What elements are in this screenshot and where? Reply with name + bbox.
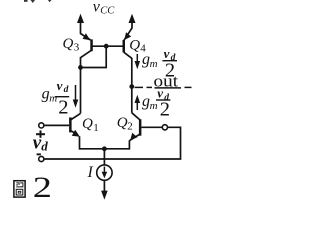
cropped text fragments top edge <box>24 0 52 3</box>
svg-text:CC: CC <box>100 6 115 17</box>
label Q2 <box>117 115 133 133</box>
svg-text:d: d <box>64 85 69 95</box>
svg-text:Q: Q <box>82 116 93 132</box>
current arrow gm vd/2 (upper right, down) <box>135 54 141 69</box>
wire: common emitters <box>80 148 130 150</box>
transistor Q4 body bar <box>123 40 126 52</box>
svg-text:m: m <box>49 92 57 104</box>
svg-text:2: 2 <box>127 121 133 133</box>
wire: Q4 collector down to Q2 collector <box>131 58 133 113</box>
svg-text:I: I <box>87 164 94 181</box>
svg-text:Q: Q <box>129 37 140 53</box>
junction dot output node <box>129 84 134 89</box>
PNP emitter arrowhead Q4 <box>124 32 131 40</box>
terminal circle right input <box>162 125 167 130</box>
transistor Q2 body bar <box>139 119 142 135</box>
transistor Q1 body bar <box>69 117 72 132</box>
wire: tail node to current source <box>103 149 105 165</box>
PNP emitter arrowhead Q3 <box>83 33 91 40</box>
label + <box>36 130 45 137</box>
wire: Q4 emitter to VCC <box>124 21 132 40</box>
svg-text:2: 2 <box>33 171 52 204</box>
transistor Q2 collector diagonal <box>132 113 140 120</box>
svg-text:2: 2 <box>58 96 68 118</box>
current arrow gm vd/2 (left, down) <box>73 85 79 108</box>
input terminal minus (open circle) <box>39 156 44 161</box>
label Q1 <box>82 116 99 134</box>
wire: Q2 emitter down <box>128 140 130 149</box>
label gm vd/2 (lower right) <box>142 86 170 121</box>
transistor Q4 collector diagonal <box>124 52 132 58</box>
current source I <box>97 165 112 180</box>
wire: current source to negative rail with arrow <box>101 180 108 199</box>
label Q4 <box>129 37 146 54</box>
transistor Q1 collector diagonal <box>70 113 80 120</box>
svg-text:2: 2 <box>160 98 170 120</box>
transistor Q2 emitter diagonal with NPN arrowhead <box>129 133 140 141</box>
wire: Q3 emitter to VCC <box>81 21 91 40</box>
junction dot base node <box>104 44 109 49</box>
svg-text:v: v <box>57 78 63 93</box>
svg-text:Q: Q <box>117 115 128 131</box>
label minus <box>37 153 41 155</box>
wire: Q3 collector down to Q1 collector <box>80 57 82 113</box>
source label vd <box>33 132 49 153</box>
svg-text:d: d <box>41 139 48 154</box>
transistor Q3 collector diagonal <box>81 50 92 58</box>
wire: diode connection loop <box>81 46 107 67</box>
caption glyph (figure CJK char) <box>14 181 25 197</box>
label gm vd/2 (upper right) <box>142 46 177 82</box>
wire: bottom rail from minus terminal to right side and up to Q2 base <box>44 127 181 159</box>
svg-text:2: 2 <box>165 59 175 81</box>
arrowhead VCC right <box>129 14 136 23</box>
svg-text:m: m <box>150 58 158 70</box>
junction dot tail node <box>102 146 107 151</box>
junction dot Q3 collector node <box>78 65 83 70</box>
label Q3 <box>63 36 80 54</box>
wire: base Q3-Q4 <box>92 45 123 47</box>
dashed lead to out <box>135 86 192 89</box>
wire: Q2 base to right terminal <box>141 126 162 128</box>
net VCC label <box>93 0 116 17</box>
svg-text:1: 1 <box>93 122 99 134</box>
svg-text:Q: Q <box>63 36 74 52</box>
wire: + terminal to Q1 base <box>44 124 69 126</box>
svg-text:3: 3 <box>74 42 80 54</box>
svg-text:m: m <box>150 100 158 112</box>
current arrow gm vd/2 (lower right, up) <box>135 95 141 110</box>
arrowhead VCC left <box>77 14 84 23</box>
transistor Q1 emitter diagonal with NPN arrowhead <box>70 130 80 137</box>
transistor Q3 body bar <box>90 39 93 51</box>
label gm vd/2 (left) <box>42 78 70 119</box>
input terminal + (open circle) <box>39 123 44 128</box>
wire: Q1 emitter down <box>79 136 81 149</box>
